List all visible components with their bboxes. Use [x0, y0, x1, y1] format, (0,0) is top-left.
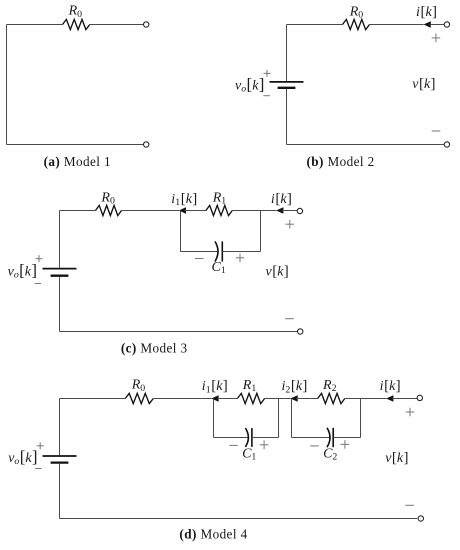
svg-text:(d) Model 4: (d) Model 4 — [179, 526, 247, 541]
svg-text:C2: C2 — [323, 447, 337, 463]
svg-text:R0: R0 — [349, 4, 364, 20]
svg-text:v[k]: v[k] — [412, 76, 435, 92]
svg-text:v[k]: v[k] — [266, 263, 289, 279]
svg-text:R2: R2 — [322, 378, 337, 394]
svg-text:i1​[k]: i1​[k] — [202, 378, 228, 395]
svg-text:i[k]: i[k] — [416, 4, 437, 20]
svg-text:i1​[k]: i1​[k] — [171, 191, 197, 208]
svg-text:i[k]: i[k] — [271, 191, 292, 207]
svg-text:C1: C1 — [211, 260, 225, 276]
svg-text:i[k]: i[k] — [380, 378, 401, 394]
svg-text:(b) Model 2: (b) Model 2 — [307, 154, 375, 169]
svg-text:R1: R1 — [242, 378, 257, 394]
svg-text:i2​[k]: i2​[k] — [282, 378, 308, 395]
svg-text:(a) Model 1: (a) Model 1 — [44, 154, 111, 169]
svg-text:R1: R1 — [212, 191, 227, 207]
svg-text:R0: R0 — [100, 190, 115, 206]
svg-text:vo​[k]: vo​[k] — [8, 447, 37, 467]
svg-text:R0: R0 — [68, 4, 83, 20]
svg-text:C1: C1 — [242, 447, 256, 463]
svg-text:vo​[k]: vo​[k] — [235, 75, 264, 95]
svg-text:vo​[k]: vo​[k] — [8, 260, 37, 280]
svg-text:(c) Model 3: (c) Model 3 — [121, 340, 188, 355]
svg-text:v[k]: v[k] — [385, 450, 408, 466]
svg-text:R0: R0 — [131, 378, 146, 394]
